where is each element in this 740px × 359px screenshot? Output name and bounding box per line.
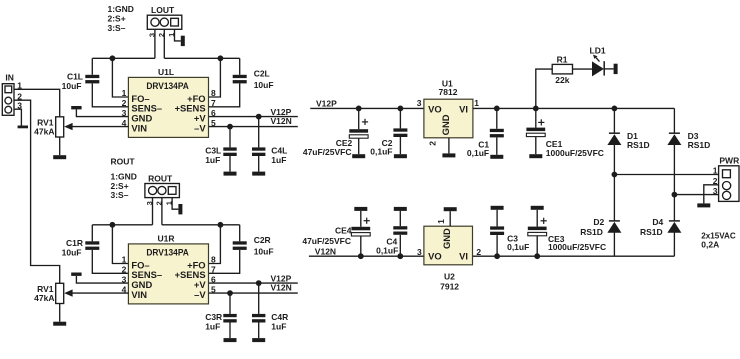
svg-text:VO: VO [428,250,442,261]
svg-text:3:S–: 3:S– [111,190,129,200]
svg-text:VIN: VIN [131,289,147,300]
RV1 wiper arrow L [64,123,72,130]
node C4R tap on V12P [256,280,262,286]
wire C1L bottom to pin2 SENS- L [92,83,128,106]
wire C4R to ground [258,323,260,339]
svg-text:1: 1 [122,88,127,98]
wire V12P to U1 VO [310,107,424,109]
ground C2 [394,154,407,158]
svg-text:V12N: V12N [271,116,292,126]
svg-text:CE4: CE4 [335,226,352,236]
wire IN pin3 to ground [14,109,21,125]
ground chip U1R pin3 [71,273,81,276]
ground IN pin3 [18,126,28,129]
wire C4 to ground [399,211,401,226]
wire to C3R [229,293,231,314]
regulator U2 7912 body [424,226,473,265]
svg-text:7: 7 [211,98,216,108]
ground RV1 L [53,155,66,159]
wire ROUT pin1 to ground [172,198,178,210]
svg-text:D2: D2 [593,217,604,227]
svg-text:47uF/25VFC: 47uF/25VFC [302,236,351,246]
svg-text:0,1uF: 0,1uF [376,246,398,256]
wire IN pin2 to RV1 R top [14,100,60,283]
node C1 tap [494,106,500,112]
capacitor C1 0,1uF [490,129,504,138]
node FO- junction R [110,222,116,228]
svg-text:C1L: C1L [67,71,83,81]
svg-text:ROUT: ROUT [111,157,136,167]
wire LOUT pin1 to ground [175,29,181,41]
ground PWR pin2 center tap [697,203,710,207]
ground C3R [224,338,237,342]
capacitor CE2 47uF/25VFC [349,129,368,133]
svg-text:C3R: C3R [205,312,222,322]
wire RV1 wiper to pin4 VIN L [72,126,128,128]
capacitor CE3 1000uF/25VFC [528,227,547,231]
CE4 plus mark [364,218,370,224]
ground RV1 R [53,322,66,326]
wire FO- rail R [92,224,152,226]
svg-text:1: 1 [713,165,718,175]
ground C3L [224,172,237,176]
svg-text:1uF: 1uF [205,321,220,331]
svg-text:GND: GND [441,228,452,249]
capacitor CE4 47uF/25VFC [351,227,370,231]
svg-text:1: 1 [474,98,479,108]
svg-text:RS1D: RS1D [627,140,650,150]
node C4L tap on V12P [256,114,262,120]
svg-text:C2L: C2L [254,69,270,79]
svg-text:V12N: V12N [271,283,292,293]
ground C4L [252,172,265,176]
wire AC1 to PWR pin1 [614,174,718,176]
svg-text:LD1: LD1 [590,46,606,56]
wire C3L to ground [229,156,231,172]
potentiometer RV1 R channel 47kA [56,283,64,303]
capacitor CE1 1000uF/25VFC [526,128,545,132]
wire RV1 bottom to ground R [59,304,61,322]
svg-text:8: 8 [211,88,216,98]
diode D4 RS1D [669,220,680,222]
wire rail to C1R top [91,225,93,242]
capacitor C4R 1uF [252,314,265,323]
node CE4 tap [358,253,364,259]
wire C2R bottom to pin7 +SENS R [209,250,240,273]
connector PWR [719,166,739,202]
capacitor C1L 10uF [85,75,99,84]
wire pin6 +V to V12P L [209,116,298,118]
svg-text:1uF: 1uF [205,155,220,165]
wire RV1 wiper to pin4 VIN R [72,292,128,294]
node +FO junction L [218,55,224,61]
wire D4 to -12V rail [673,233,675,257]
wire FO- rail L [92,57,155,59]
svg-text:47kA: 47kA [34,293,54,303]
svg-text:U1R: U1R [157,234,174,244]
svg-text:10uF: 10uF [62,81,82,91]
wire C4L to ground [258,156,260,172]
capacitor C4L 1uF [252,147,265,156]
wire to C4 [399,235,401,256]
op-amp U1R DRV134PA body [128,244,208,304]
capacitor C3L 1uF [223,147,236,156]
wire to C3L [229,127,231,148]
LD1 emission arrow [596,58,600,62]
svg-text:–V: –V [194,289,206,300]
svg-text:1000uF/25VFC: 1000uF/25VFC [548,242,606,252]
wire ROUT pin3 to FO- rail [152,198,154,225]
node +FO junction R [218,222,224,228]
ground CE2 [352,154,365,158]
node D1 top [612,106,618,112]
wire junction to pin8 +FO R [209,225,221,264]
node C4 tap [397,253,403,259]
svg-text:DRV134PA: DRV134PA [146,80,189,91]
wire rail to C1L top [91,58,93,75]
wire ground to pin3 GND R [76,276,128,283]
diode D3 RS1D [669,132,680,134]
wire junction to pin1 FO- L [112,58,128,97]
svg-text:RS1D: RS1D [580,227,603,237]
wire rail to D1 [613,108,615,133]
svg-text:5: 5 [211,284,216,294]
wire D2 to -12V rail [613,233,615,257]
svg-text:R1: R1 [557,55,568,65]
wire junction to pin1 FO- R [112,225,128,264]
svg-text:ROUT: ROUT [148,173,173,183]
wire RV1 bottom to ground L [59,137,61,155]
svg-text:0,1uF: 0,1uF [370,146,392,156]
capacitor C2L 10uF [233,75,247,84]
connector IN [2,84,14,116]
svg-text:V12P: V12P [316,99,337,109]
svg-text:3:S–: 3:S– [108,23,126,33]
ground C3 [491,206,504,210]
svg-text:C3L: C3L [205,145,221,155]
wire +FO rail L [164,57,239,59]
capacitor C1R 10uF [85,241,99,250]
wire CE4 to ground [360,211,362,227]
wire pin6 +V to V12P R [209,282,298,284]
diode D1 RS1D [609,132,620,134]
svg-text:C2R: C2R [254,235,271,245]
svg-text:0,1uF: 0,1uF [467,148,489,158]
svg-text:7912: 7912 [440,281,459,291]
regulator U1 7812 body [424,99,473,138]
CE2 plus mark [362,119,368,125]
wire CE1 to ground [535,137,537,154]
svg-text:VO: VO [428,103,442,114]
svg-text:U2: U2 [444,272,455,282]
wire C1 to ground [496,137,498,154]
wire CE3 to ground [536,210,538,227]
node CE1 / R1 tap [533,106,539,112]
node C3R tap on V12N [227,290,233,296]
node C3 tap [494,253,500,259]
node C3L tap on V12N [227,124,233,130]
svg-text:U1L: U1L [158,67,174,77]
ground LD1 [614,64,618,74]
svg-text:6: 6 [211,108,216,118]
capacitor C2R 10uF [233,241,247,250]
svg-text:47uF/25VFC: 47uF/25VFC [303,147,352,157]
ground U2 pin1 [444,207,457,211]
wire U1 GND pin2 to ground [448,138,450,154]
wire LOUT pin2 to +FO rail [163,29,165,58]
wire C2 to ground [399,137,401,154]
node AC2 [672,192,678,198]
svg-text:8: 8 [211,255,216,265]
svg-text:VI: VI [459,103,468,114]
svg-text:GND: GND [440,114,451,135]
svg-text:C1R: C1R [66,238,83,248]
ground C1 [490,155,503,159]
wire rail to C2R top [239,225,241,242]
wire PWR pin2 to ground [704,185,719,204]
connector LOUT [147,15,182,29]
svg-text:C4L: C4L [271,145,287,155]
svg-text:5: 5 [211,118,216,128]
svg-text:–V: –V [194,123,206,134]
node CE2 tap [356,106,362,112]
svg-text:0,2A: 0,2A [701,240,719,250]
wire rail to C2L top [239,58,241,75]
svg-text:2: 2 [122,98,127,108]
node FO- junction L [110,55,116,61]
wire rail corner to D3 [673,108,675,133]
capacitor C3 0,1uF [490,226,504,235]
op-amp U1L DRV134PA body [128,77,208,137]
wire rail to R1 [536,69,552,108]
wire ground to pin3 GND L [76,109,128,116]
svg-text:3: 3 [122,108,127,118]
CE3 plus mark [541,218,547,224]
diode D2 RS1D [609,220,620,222]
svg-text:2: 2 [122,265,127,275]
ground LOUT pin1 [181,36,185,46]
capacitor C2 0,1uF [393,128,407,137]
node C2 tap [398,106,404,112]
svg-text:1uF: 1uF [271,321,286,331]
wire pin5 -V to V12N L [209,126,298,128]
svg-text:7812: 7812 [439,87,458,97]
wire to C2 [399,108,401,128]
svg-text:22k: 22k [555,75,569,85]
svg-text:10uF: 10uF [62,247,82,257]
wire pin5 -V to V12N R [209,292,298,294]
ground ROUT pin1 [178,204,182,214]
svg-text:3: 3 [122,274,127,284]
svg-text:D4: D4 [652,217,663,227]
wire +12V rail [473,107,675,109]
wire C3 to ground [496,210,498,227]
connector ROUT [145,184,180,198]
wire to CE2 [358,108,360,129]
svg-text:C4R: C4R [271,312,288,322]
wire D1 to D2 / AC1 tap [613,145,615,221]
RV1 wiper arrow R [64,289,72,296]
wire C3R to ground [229,323,231,339]
wire R1 to LD1 [573,68,593,70]
ground CE1 [529,154,542,158]
ground CE3 [531,206,544,210]
wire LD1 to ground [604,68,613,70]
wire to C1 [496,108,498,128]
wire to C3 [496,235,498,256]
node AC1 [612,172,618,178]
svg-text:RS1D: RS1D [640,227,663,237]
LED LD1 [592,61,604,76]
wire +FO rail R [162,224,240,226]
svg-text:10uF: 10uF [254,246,274,256]
wire junction to pin8 +FO L [209,58,221,97]
svg-text:LOUT: LOUT [151,5,175,15]
resistor R1 22k [552,64,572,74]
svg-text:3: 3 [417,98,422,108]
wire AC2 to PWR pin3 [674,194,718,196]
wire C1R bottom to pin2 SENS- R [92,250,128,273]
svg-text:6: 6 [211,274,216,284]
svg-text:47kA: 47kA [34,126,54,136]
svg-text:1: 1 [436,219,446,224]
svg-text:1000uF/25VFC: 1000uF/25VFC [546,148,604,158]
wire -12V rail [473,255,675,257]
wire to CE1 [535,108,537,127]
svg-text:RS1D: RS1D [688,140,711,150]
svg-text:3: 3 [417,247,422,257]
svg-text:10uF: 10uF [254,80,274,90]
wire C2L bottom to pin7 +SENS L [209,83,240,106]
wire CE2 to ground [358,138,360,154]
ground C4R [252,338,265,342]
svg-text:DRV134PA: DRV134PA [146,246,189,257]
wire ROUT pin2 to +FO rail [161,198,163,225]
node CE3 tap [534,253,540,259]
svg-text:VI: VI [459,250,468,261]
wire to CE3 [536,236,538,256]
ground chip U1L pin3 [71,106,81,109]
wire D3 to D4 / AC2 tap [673,145,675,221]
wire to CE4 [360,236,362,256]
svg-text:VIN: VIN [131,123,147,134]
CE1 plus mark [538,119,544,125]
svg-text:V12N: V12N [315,246,336,256]
wire LOUT pin3 to FO- rail [154,29,156,58]
wire to C4L [258,117,260,148]
svg-text:IN: IN [5,72,14,82]
potentiometer RV1 L channel 47kA [56,117,64,137]
wire V12N to U2 VO [309,255,424,257]
svg-text:0,1uF: 0,1uF [507,242,529,252]
capacitor C4 0,1uF [393,226,407,235]
svg-text:1uF: 1uF [271,155,286,165]
svg-text:PWR: PWR [719,156,739,166]
ground U1 pin2 [442,153,455,157]
svg-text:1: 1 [122,255,127,265]
wire IN pin1 to RV1 L top [14,89,60,117]
capacitor C3R 1uF [223,314,236,323]
ground C4 [394,207,407,211]
wire to C4R [258,283,260,314]
wire U2 GND pin1 to ground [449,211,451,226]
ground CE4 [354,207,367,211]
svg-text:2: 2 [427,141,437,146]
svg-text:7: 7 [211,265,216,275]
